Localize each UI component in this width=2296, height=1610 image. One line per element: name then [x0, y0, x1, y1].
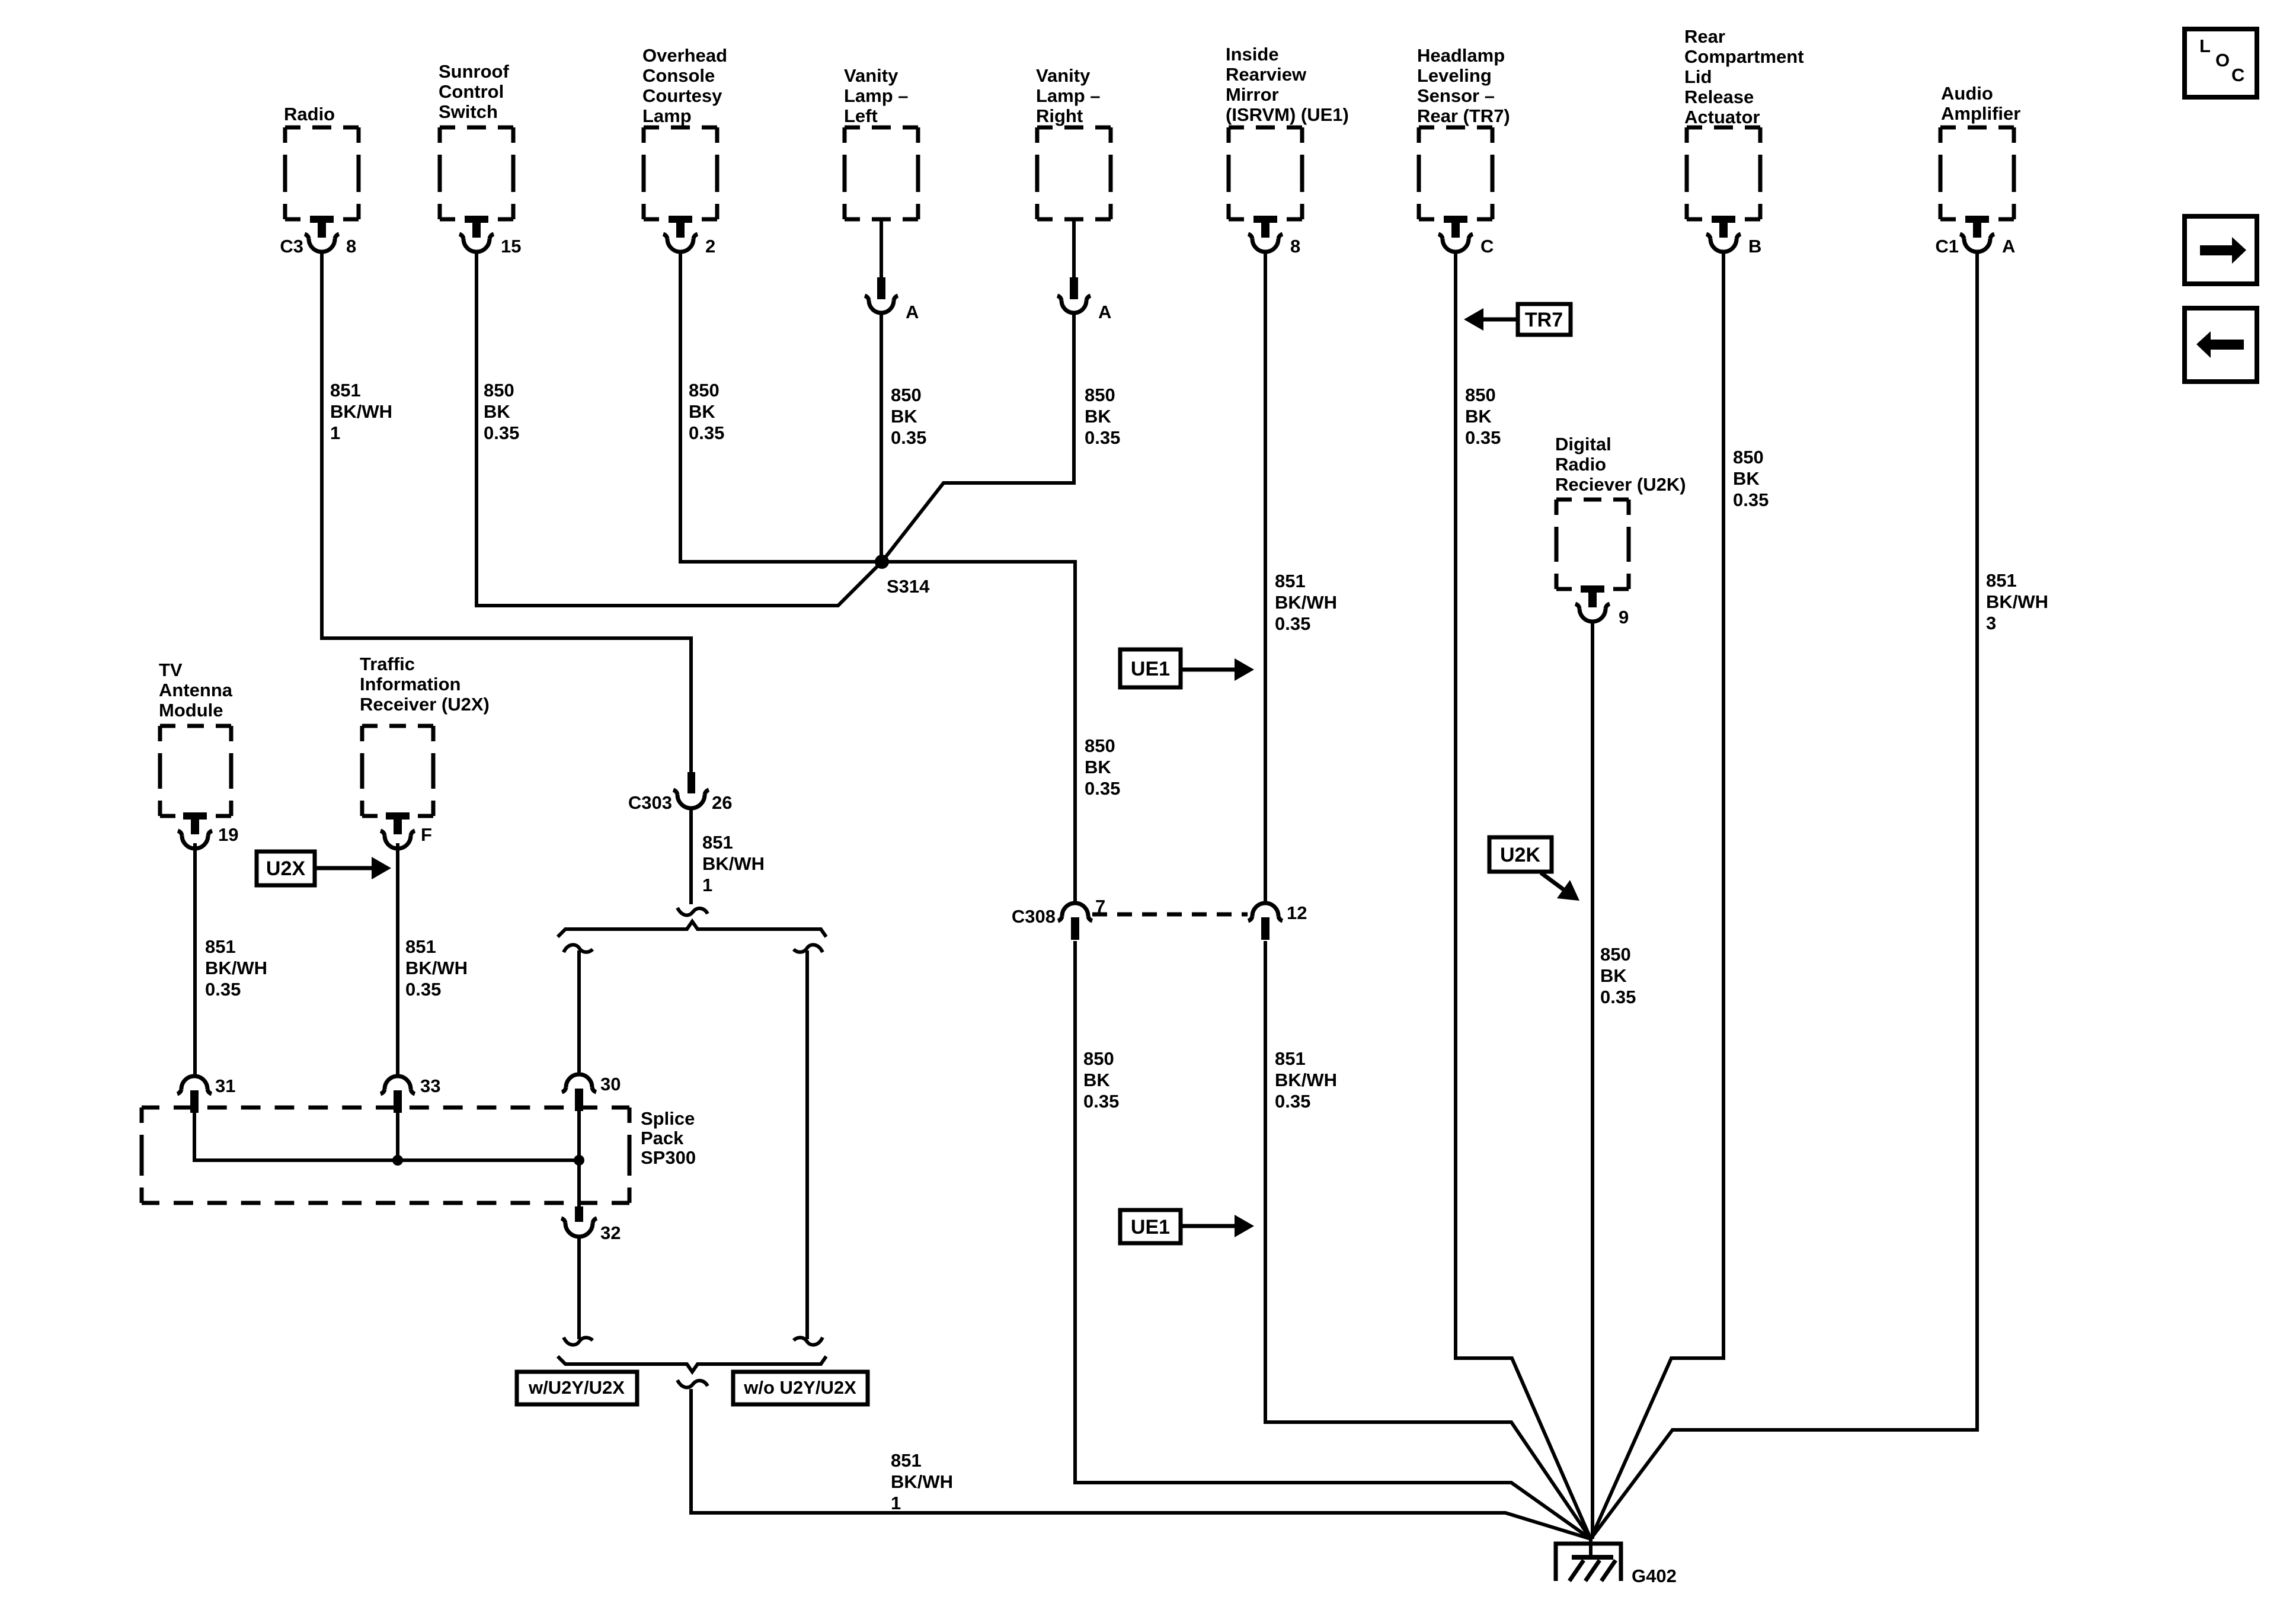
wire Digital Radio Reciever pin 9 to G402 (850 BK)	[1591, 622, 1594, 1539]
svg-text:851: 851	[330, 380, 361, 401]
hook bottom of left option branch	[564, 1337, 593, 1345]
svg-text:Compartment: Compartment	[1684, 46, 1804, 67]
svg-text:A: A	[2002, 236, 2015, 257]
svg-text:851: 851	[891, 1450, 922, 1471]
svg-text:Pack: Pack	[641, 1128, 684, 1148]
svg-text:Amplifier: Amplifier	[1941, 103, 2020, 124]
label 851 BK/WH 3 audio amp wire	[1986, 570, 2048, 633]
svg-text:0.35: 0.35	[1083, 1091, 1119, 1112]
svg-text:0.35: 0.35	[205, 979, 241, 1000]
svg-text:Lamp –: Lamp –	[1036, 85, 1101, 106]
junction dot SP300 bus at pin 33	[392, 1155, 403, 1166]
svg-text:Vanity: Vanity	[1036, 65, 1091, 86]
svg-text:9: 9	[1619, 607, 1629, 628]
legend left-arrow box	[2185, 308, 2257, 382]
svg-text:0.35: 0.35	[1733, 489, 1769, 510]
label 850 BK 0.35 overhead console wire	[689, 380, 724, 443]
svg-text:0.35: 0.35	[484, 422, 519, 443]
svg-text:A: A	[1098, 302, 1111, 322]
svg-text:U2X: U2X	[266, 857, 305, 880]
svg-text:19: 19	[218, 824, 238, 845]
svg-text:850: 850	[891, 385, 922, 405]
svg-text:Module: Module	[159, 700, 223, 721]
svg-text:850: 850	[1465, 385, 1496, 405]
svg-text:Lamp –: Lamp –	[844, 85, 909, 106]
svg-text:Radio: Radio	[1555, 454, 1606, 475]
svg-text:Audio: Audio	[1941, 83, 1993, 104]
connector SP300 pin 32	[561, 1206, 621, 1243]
label 851 BK/WH 0.35 tv antenna wire	[205, 936, 267, 1000]
label 850 BK 0.35 digital radio wire	[1600, 944, 1636, 1007]
wire Overhead Console Lamp pin 2 to S314 (850 BK)	[680, 252, 882, 562]
label 850 BK 0.35 sunroof wire	[484, 380, 519, 443]
component Headlamp Leveling Sensor - Rear TR7 (pin C)	[1417, 45, 1510, 257]
component Vanity Lamp - Left (pin A)	[844, 65, 919, 322]
wire TV antenna pin 19 to SP300 pin 31 (851 BK/WH)	[193, 843, 197, 1075]
svg-text:Rearview: Rearview	[1226, 64, 1307, 85]
wire C303 to harness split (851 BK/WH)	[689, 808, 693, 904]
svg-text:Splice: Splice	[641, 1108, 695, 1129]
svg-text:2: 2	[705, 236, 715, 257]
wire SP300 internal bus	[194, 1109, 579, 1210]
svg-text:33: 33	[420, 1076, 440, 1096]
svg-text:BK: BK	[484, 401, 510, 422]
legend right-arrow box	[2185, 216, 2257, 284]
label 850 BK 0.35 S314-C308 wire	[1085, 735, 1120, 799]
label S314	[887, 576, 930, 597]
brace top option split	[558, 921, 826, 937]
wire ISRVM pin 8 down to C308 pin 12 (851 BK/WH)	[1264, 252, 1267, 903]
svg-text:Sunroof: Sunroof	[439, 61, 509, 82]
svg-text:Vanity: Vanity	[844, 65, 898, 86]
svg-text:0.35: 0.35	[405, 979, 441, 1000]
svg-text:A: A	[906, 302, 919, 322]
junction dot SP300 bus at pin 30	[574, 1155, 584, 1166]
svg-text:B: B	[1748, 236, 1761, 257]
label 850 BK 0.35 vanity right wire	[1085, 385, 1120, 448]
wire Radio pin 8 to C303 (851 BK/WH)	[322, 252, 691, 772]
svg-text:Switch: Switch	[439, 101, 498, 122]
svg-text:C303: C303	[628, 792, 672, 813]
label 850 BK 0.35 below C308 pin 7	[1083, 1048, 1119, 1112]
svg-text:TV: TV	[159, 660, 183, 680]
wire Vanity Lamp Left to S314 (850 BK)	[880, 313, 883, 562]
svg-text:w/o U2Y/U2X: w/o U2Y/U2X	[743, 1377, 856, 1398]
svg-text:Lid: Lid	[1684, 66, 1712, 87]
wire Rear lid actuator pin B to G402 (850 BK)	[1591, 252, 1723, 1539]
callout UE1 lower with arrow to ISRVM wire	[1120, 1210, 1254, 1243]
svg-text:Reciever (U2K): Reciever (U2K)	[1555, 474, 1686, 495]
legend LOC box	[2185, 29, 2257, 97]
component Radio (dashed box, connector C3 pin 8)	[280, 104, 359, 257]
svg-text:Lamp: Lamp	[642, 105, 692, 126]
label 851 BK/WH 0.35 traffic receiver wire	[405, 936, 468, 1000]
svg-text:Overhead: Overhead	[642, 45, 727, 66]
connector C308 pin 12	[1248, 902, 1307, 940]
svg-text:UE1: UE1	[1131, 1216, 1170, 1238]
svg-text:8: 8	[1290, 236, 1300, 257]
svg-text:850: 850	[1600, 944, 1631, 965]
svg-text:BK/WH: BK/WH	[1275, 1070, 1337, 1090]
component Sunroof Control Switch (pin 15)	[439, 61, 521, 257]
svg-text:Actuator: Actuator	[1684, 107, 1760, 127]
wire right option branch (w/o U2Y/U2X)	[805, 950, 809, 1339]
component Vanity Lamp - Right (pin A)	[1036, 65, 1111, 322]
svg-text:851: 851	[1275, 571, 1306, 591]
wire SP300 pin 32 down to option brace	[577, 1236, 581, 1339]
ground G402 symbol	[1556, 1539, 1621, 1581]
svg-text:Digital: Digital	[1555, 434, 1611, 454]
svg-text:26: 26	[712, 792, 732, 813]
callout UE1 upper with arrow to ISRVM wire	[1120, 649, 1254, 687]
svg-text:G402: G402	[1632, 1566, 1677, 1586]
svg-text:1: 1	[891, 1493, 901, 1513]
svg-text:S314: S314	[887, 576, 930, 597]
svg-text:C: C	[2231, 65, 2244, 85]
svg-text:C: C	[1480, 236, 1494, 257]
svg-text:0.35: 0.35	[1085, 427, 1120, 448]
label 851 BK/WH 0.35 below C308 pin 12	[1275, 1048, 1337, 1112]
svg-text:SP300: SP300	[641, 1147, 696, 1168]
svg-text:C1: C1	[1935, 236, 1959, 257]
svg-text:O: O	[2215, 50, 2230, 71]
label 851 BK/WH 0.35 ISRVM wire	[1275, 571, 1337, 634]
wire Audio Amplifier pin A to G402 (851 BK/WH)	[1591, 252, 1977, 1539]
hook top of right option branch	[794, 945, 823, 952]
svg-text:BK: BK	[1085, 406, 1111, 427]
svg-text:31: 31	[215, 1076, 235, 1096]
svg-text:C3: C3	[280, 236, 303, 257]
svg-text:UE1: UE1	[1131, 658, 1170, 680]
label 851 BK/WH 1 below C303	[702, 832, 765, 895]
connector SP300 pin 33	[380, 1076, 440, 1113]
svg-text:0.35: 0.35	[1600, 987, 1636, 1007]
label Splice Pack SP300	[641, 1108, 696, 1168]
svg-text:Information: Information	[360, 674, 461, 694]
svg-text:L: L	[2199, 36, 2211, 56]
component Inside Rearview Mirror ISRVM UE1 (pin 8)	[1226, 44, 1349, 257]
svg-text:3: 3	[1986, 613, 1996, 633]
svg-text:850: 850	[1085, 385, 1115, 405]
component TV Antenna Module (pin 19)	[159, 660, 238, 849]
svg-text:F: F	[421, 824, 432, 845]
component Rear Compartment Lid Release Actuator (pin B)	[1684, 26, 1804, 257]
svg-text:BK/WH: BK/WH	[330, 401, 392, 422]
break symbol below option brace	[677, 1380, 708, 1387]
wire C308 pin 12 to G402 (851 BK/WH)	[1265, 941, 1591, 1539]
svg-text:BK/WH: BK/WH	[205, 958, 267, 978]
svg-text:BK: BK	[891, 406, 917, 427]
wire Vanity Lamp Right to S314 (850 BK)	[882, 313, 1074, 562]
hook bottom of right option branch	[794, 1337, 823, 1345]
svg-text:850: 850	[1085, 735, 1115, 756]
svg-text:0.35: 0.35	[1275, 613, 1310, 634]
component Traffic Information Receiver U2X (pin F)	[360, 654, 490, 849]
svg-text:Left: Left	[844, 105, 878, 126]
svg-text:BK: BK	[689, 401, 715, 422]
wire Sunroof pin 15 to S314 (850 BK)	[477, 252, 882, 606]
svg-text:851: 851	[1986, 570, 2017, 591]
svg-text:Courtesy: Courtesy	[642, 85, 722, 106]
svg-text:1: 1	[330, 422, 340, 443]
label G402	[1632, 1566, 1677, 1586]
svg-text:BK/WH: BK/WH	[702, 853, 765, 874]
svg-text:BK/WH: BK/WH	[405, 958, 468, 978]
svg-text:Rear (TR7): Rear (TR7)	[1417, 105, 1510, 126]
svg-text:BK: BK	[1600, 965, 1627, 986]
svg-text:8: 8	[346, 236, 356, 257]
wire Headlamp sensor pin C to G402 (850 BK)	[1456, 252, 1591, 1539]
svg-text:Sensor –: Sensor –	[1417, 85, 1495, 106]
svg-text:BK: BK	[1083, 1070, 1110, 1090]
svg-text:850: 850	[1083, 1048, 1114, 1069]
svg-text:w/U2Y/U2X: w/U2Y/U2X	[528, 1377, 625, 1398]
svg-text:Radio: Radio	[284, 104, 335, 124]
svg-text:BK: BK	[1085, 757, 1111, 777]
svg-text:32: 32	[600, 1222, 621, 1243]
svg-text:Leveling: Leveling	[1417, 65, 1492, 86]
svg-text:TR7: TR7	[1525, 309, 1563, 331]
svg-text:Control: Control	[439, 81, 504, 102]
svg-text:U2K: U2K	[1500, 844, 1540, 866]
svg-text:12: 12	[1287, 902, 1307, 923]
svg-text:850: 850	[689, 380, 720, 401]
svg-text:0.35: 0.35	[1275, 1091, 1310, 1112]
wire option split to G402 (851 BK/WH)	[691, 1389, 1591, 1539]
svg-text:850: 850	[1733, 447, 1764, 468]
svg-text:0.35: 0.35	[891, 427, 926, 448]
svg-text:Traffic: Traffic	[360, 654, 415, 674]
svg-text:BK: BK	[1733, 468, 1760, 489]
splice pack SP300 dashed box	[142, 1108, 629, 1203]
svg-text:Right: Right	[1036, 105, 1083, 126]
wire Traffic receiver pin F to SP300 pin 33 (851 BK/WH)	[396, 843, 399, 1075]
callout U2K with diagonal arrow to digital radio wire	[1489, 837, 1579, 901]
label 851 BK/WH 1 main ground wire	[891, 1450, 953, 1513]
svg-text:Console: Console	[642, 65, 715, 86]
svg-text:BK/WH: BK/WH	[1986, 591, 2048, 612]
break symbol above option brace	[677, 908, 708, 915]
hook top of left option branch	[564, 945, 593, 952]
svg-text:1: 1	[702, 875, 712, 895]
svg-text:851: 851	[1275, 1048, 1306, 1069]
svg-text:BK: BK	[1465, 406, 1492, 427]
label 850 BK 0.35 headlamp wire	[1465, 385, 1501, 448]
callout U2X with arrow to traffic receiver wire	[257, 852, 391, 885]
label 851 BK/WH 1 radio wire	[330, 380, 392, 443]
option label box w/U2Y/U2X	[517, 1372, 637, 1404]
splice S314 junction dot	[875, 555, 889, 569]
svg-text:0.35: 0.35	[1465, 427, 1501, 448]
svg-text:851: 851	[702, 832, 733, 853]
svg-text:Rear: Rear	[1684, 26, 1725, 47]
svg-text:Mirror: Mirror	[1226, 84, 1279, 105]
label 850 BK 0.35 rear lid wire	[1733, 447, 1769, 510]
svg-text:15: 15	[501, 236, 521, 257]
svg-text:Headlamp: Headlamp	[1417, 45, 1505, 66]
svg-text:0.35: 0.35	[689, 422, 724, 443]
component Overhead Console Courtesy Lamp (pin 2)	[642, 45, 727, 257]
svg-text:Inside: Inside	[1226, 44, 1279, 65]
wire left option branch upper	[577, 950, 581, 1074]
connector SP300 pin 31	[177, 1076, 235, 1113]
svg-text:C308: C308	[1012, 906, 1056, 927]
callout TR7 with arrow to headlamp wire	[1464, 304, 1571, 335]
connector SP300 pin 30	[562, 1074, 621, 1111]
svg-text:851: 851	[205, 936, 236, 957]
label 850 BK 0.35 vanity left wire	[891, 385, 926, 448]
component Digital Radio Reciever U2K (pin 9)	[1555, 434, 1686, 628]
component Audio Amplifier (connector C1 pin A)	[1935, 83, 2020, 257]
brace bottom option split	[558, 1356, 826, 1372]
wire C308 pin 7 to G402 (850 BK)	[1075, 941, 1591, 1539]
connector C303 pin 26	[628, 772, 733, 813]
svg-text:Antenna: Antenna	[159, 680, 233, 700]
svg-text:851: 851	[405, 936, 436, 957]
dashed connector link C308 7-12	[1092, 913, 1248, 917]
wire S314 to C308 pin 7 (850 BK)	[882, 562, 1075, 903]
svg-text:Release: Release	[1684, 87, 1754, 107]
connector C308 pin 7	[1012, 896, 1105, 940]
svg-text:BK/WH: BK/WH	[1275, 592, 1337, 613]
option label box w/o U2Y/U2X	[733, 1372, 868, 1404]
svg-text:BK/WH: BK/WH	[891, 1471, 953, 1492]
svg-text:Receiver (U2X): Receiver (U2X)	[360, 694, 490, 715]
svg-text:30: 30	[600, 1074, 621, 1094]
svg-text:0.35: 0.35	[1085, 778, 1120, 799]
svg-text:(ISRVM) (UE1): (ISRVM) (UE1)	[1226, 104, 1349, 125]
svg-text:850: 850	[484, 380, 514, 401]
